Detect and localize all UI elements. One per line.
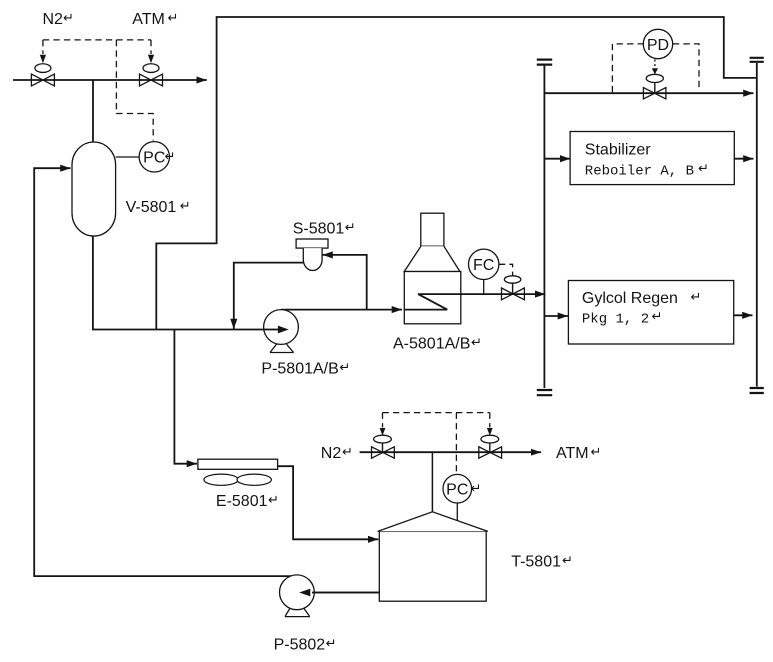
svg-text:A-5801A/B: A-5801A/B bbox=[393, 336, 470, 353]
svg-text:↵: ↵ bbox=[698, 161, 709, 176]
svg-text:V-5801: V-5801 bbox=[126, 199, 177, 216]
svg-text:↵: ↵ bbox=[345, 220, 356, 235]
svg-text:ATM: ATM bbox=[556, 445, 589, 462]
svg-text:Pkg 1, 2: Pkg 1, 2 bbox=[582, 311, 649, 327]
svg-text:↵: ↵ bbox=[691, 289, 702, 304]
svg-text:P-5801A/B: P-5801A/B bbox=[261, 361, 338, 378]
svg-text:ATM: ATM bbox=[132, 11, 165, 28]
svg-text:↵: ↵ bbox=[168, 10, 179, 25]
svg-text:↵: ↵ bbox=[471, 481, 482, 496]
svg-text:↵: ↵ bbox=[562, 553, 573, 568]
svg-text:↵: ↵ bbox=[180, 198, 191, 213]
svg-text:N2: N2 bbox=[43, 11, 64, 28]
svg-text:E-5801: E-5801 bbox=[216, 493, 268, 510]
svg-text:↵: ↵ bbox=[165, 149, 176, 164]
svg-text:Reboiler A, B: Reboiler A, B bbox=[585, 164, 694, 180]
svg-text:PD: PD bbox=[647, 37, 669, 54]
svg-text:↵: ↵ bbox=[471, 335, 482, 350]
svg-text:↵: ↵ bbox=[339, 360, 350, 375]
svg-text:↵: ↵ bbox=[342, 444, 353, 459]
svg-text:PC: PC bbox=[143, 150, 165, 167]
svg-text:N2: N2 bbox=[321, 445, 342, 462]
svg-text:↵: ↵ bbox=[63, 10, 74, 25]
svg-text:T-5801: T-5801 bbox=[511, 554, 561, 571]
svg-text:FC: FC bbox=[473, 257, 494, 274]
svg-text:P-5802: P-5802 bbox=[274, 637, 326, 654]
svg-text:Gylcol Regen: Gylcol Regen bbox=[582, 290, 678, 307]
svg-text:↵: ↵ bbox=[268, 492, 279, 507]
svg-text:S-5801: S-5801 bbox=[293, 221, 345, 238]
svg-text:↵: ↵ bbox=[591, 444, 602, 459]
svg-text:↵: ↵ bbox=[326, 636, 337, 651]
svg-text:↵: ↵ bbox=[652, 308, 663, 323]
svg-text:Stabilizer: Stabilizer bbox=[585, 141, 651, 158]
svg-text:PC: PC bbox=[446, 482, 468, 499]
